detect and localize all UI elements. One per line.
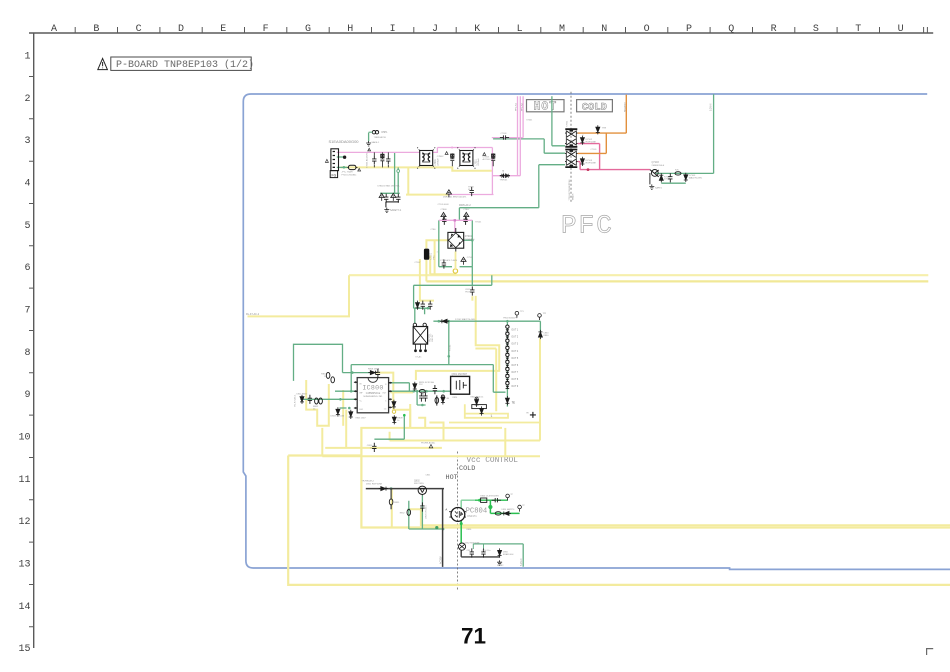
wire green Q802 rect [409, 495, 443, 529]
line filter L7021 [457, 147, 476, 168]
svg-text:5: 5 [24, 221, 30, 232]
svg-text:RGP10NE: RGP10NE [586, 141, 597, 143]
wire pink third vertical [492, 96, 523, 137]
svg-text:2200uH: 2200uH [438, 158, 440, 166]
bridge rectifier D7001 [448, 232, 464, 248]
node green pin2 dot [350, 390, 353, 393]
svg-text:TNR9G821K: TNR9G821K [374, 137, 387, 139]
ground SAFE2 [497, 560, 502, 565]
wire yellow bus lower left riser [426, 240, 448, 281]
svg-text:L7001: L7001 [434, 158, 437, 165]
svg-text:C4558RVD-E: C4558RVD-E [366, 392, 381, 395]
svg-text:OUT 2: OUT 2 [511, 337, 518, 339]
wire green bridge right leg [464, 220, 473, 266]
wire yellow bottom long bus [288, 456, 950, 585]
svg-text:PFC: PFC [561, 211, 614, 241]
capacitor C7003 [386, 155, 390, 164]
warning triangle fuse [358, 168, 361, 171]
node yellow circle pin8 [392, 410, 395, 413]
svg-text:1:4: 1:4 [384, 409, 387, 411]
wire blue board outline [243, 94, 950, 569]
svg-text:PFC: PFC [433, 255, 435, 260]
svg-text:C7001 AC250V: C7001 AC250V [366, 152, 369, 168]
node green x449 dot [448, 355, 451, 358]
svg-text:Q: Q [728, 24, 734, 35]
resistor R7104 [668, 173, 672, 182]
capacitor C7103 [463, 216, 467, 225]
wire brightgreen PC804 bottom [460, 521, 462, 544]
wire green T2 top pin [493, 139, 565, 153]
wire yellow IC800 left loop [306, 380, 329, 426]
svg-text:HOT: HOT [446, 474, 458, 482]
capacitor C806 [392, 400, 396, 409]
svg-text:13: 13 [18, 559, 30, 570]
transformer T7001 upper [565, 129, 577, 147]
wire green IC right main [391, 390, 451, 392]
component box D841 [472, 405, 487, 409]
capacitor C808 [376, 369, 380, 378]
wire green bridge bottom row [439, 266, 473, 268]
node green mid bus dots [438, 320, 441, 323]
wire yellow Q802 drop [391, 489, 393, 528]
diode D7B05 [391, 193, 396, 201]
wire yellow IC800 lower left [322, 428, 360, 456]
svg-text:OUT 4: OUT 4 [511, 351, 518, 353]
connector P1 AC inlet [331, 149, 339, 171]
wire green bridge left leg [438, 220, 440, 266]
wire yellow IC800 long mid [361, 427, 503, 429]
resistor R802 [315, 398, 319, 404]
wire yellow AC line [341, 167, 492, 170]
node pink square [451, 147, 453, 149]
svg-text:6: 6 [24, 263, 30, 274]
hot-cold dashed boundary upper [570, 92, 572, 202]
wire yellow C7106 stub [471, 296, 473, 301]
capacitor C810 [413, 382, 417, 391]
svg-text:SAFE2: SAFE2 [497, 564, 504, 567]
svg-text:2200uH: 2200uH [478, 158, 480, 166]
resistor R854 fusible [495, 512, 501, 515]
svg-text:R7101: R7101 [475, 222, 482, 224]
wire green mid bus [433, 320, 540, 322]
svg-text:D: D [178, 24, 184, 35]
wire dark safety gnd link [386, 202, 399, 208]
svg-text:PK-RELAY-AC: PK-RELAY-AC [421, 441, 436, 444]
svg-text:Q7103: Q7103 [652, 161, 660, 164]
svg-text:D7B04 D7B05 1SS270A: D7B04 D7B05 1SS270A [378, 184, 400, 187]
svg-text:COLD: COLD [459, 465, 475, 473]
node green relay net dot [427, 307, 430, 310]
wire pink T1 rect out [578, 144, 600, 170]
svg-text:K7-AC: K7-AC [416, 356, 422, 359]
capacitor C7B04 [384, 194, 388, 203]
wire yellow D840 loop [465, 404, 508, 418]
node brightgreen big dot [488, 505, 492, 509]
varistor C7105 [461, 257, 466, 265]
node yellow circle under bridge [453, 269, 457, 273]
ground SAFE1 Q7103 [649, 184, 654, 189]
svg-text:MA2270-GRL: MA2270-GRL [689, 176, 703, 179]
wire green T2 bottom pin [539, 164, 565, 166]
svg-text:C7107: C7107 [415, 262, 422, 264]
svg-text:TRANS: TRANS [571, 193, 574, 200]
node brightgreen bottom dot [460, 522, 463, 525]
diode ladder D831-D839 [506, 325, 510, 332]
wire green safety vertical2 [397, 167, 399, 193]
svg-text:B: B [93, 24, 99, 35]
svg-text:D7J02 MA2270-GRL: D7J02 MA2270-GRL [455, 318, 476, 321]
svg-text:R005-AF-2: R005-AF-2 [459, 204, 471, 207]
wire green x449 drop [448, 321, 450, 364]
node pink square bridge [454, 219, 456, 221]
wire green ladder bottom [506, 389, 508, 406]
warning triangle caps [368, 148, 371, 151]
wire yellow IC800 left vertical [342, 390, 344, 426]
svg-text:10: 10 [18, 432, 30, 443]
diode D803 [336, 407, 340, 416]
svg-text:AC20V: AC20V [440, 556, 443, 564]
svg-text:9: 9 [24, 390, 30, 401]
svg-text:KRC243S: KRC243S [414, 483, 424, 485]
wire green Q851 link [473, 544, 483, 549]
node green fuse junction [343, 166, 346, 169]
border ruler frame with grid letters A-U and row numbers 1-15 [29, 32, 933, 34]
svg-text:MJM4558RVD-TE1: MJM4558RVD-TE1 [364, 396, 384, 398]
wire brightgreen PC804 top net [461, 500, 475, 508]
wire pink PFC pair [518, 96, 521, 176]
wire green safety vertical1 [394, 152, 396, 193]
svg-text:M: M [559, 24, 565, 35]
hot-cold dashed boundary lower [457, 452, 459, 591]
node green circle safety [397, 170, 400, 173]
svg-text:G: G [305, 24, 311, 35]
wire yellow x443 jog [429, 423, 443, 441]
capacitor C7104 [442, 259, 446, 268]
wire pink T2 rect out [578, 162, 581, 170]
wire yellow relay loop [416, 296, 499, 380]
wire yellow x496 drop [475, 349, 496, 412]
svg-text:R840 D840 1k: R840 D840 1k [471, 397, 484, 399]
diode D7105 [684, 173, 688, 182]
svg-text:SAFE-1: SAFE-1 [372, 141, 380, 144]
wire pink bridge top [439, 220, 473, 232]
capacitor C7002 X2 [380, 154, 384, 167]
thermistor TH8001 [596, 125, 600, 134]
wire yellow x425 jog [418, 418, 425, 428]
wire green pin8 top link [343, 372, 371, 374]
svg-text:R: R [771, 24, 777, 35]
wire pink filter top loop [433, 148, 493, 153]
svg-text:COLD: COLD [582, 103, 607, 114]
capacitor C815 [470, 286, 474, 295]
svg-text:D803 1SS133: D803 1SS133 [331, 416, 345, 418]
svg-text:C7105 400V: C7105 400V [438, 204, 450, 206]
svg-text:8: 8 [385, 384, 386, 386]
capacitor C7108 left of transformer [500, 135, 509, 139]
wire green transformer link [493, 138, 500, 140]
svg-text:71: 71 [461, 624, 486, 649]
svg-text:OUT 1: OUT 1 [511, 330, 518, 332]
plus mark 9V [530, 412, 536, 418]
wire yellow bridge second riser [434, 240, 436, 274]
svg-text:1: 1 [24, 52, 30, 63]
capacitor C852 [420, 502, 424, 511]
diode D808 [368, 371, 377, 375]
svg-text:OUT 9: OUT 9 [511, 386, 518, 388]
svg-text:1: 1 [583, 134, 584, 136]
wire brightgreen mid net [490, 500, 519, 513]
svg-text:K: K [474, 24, 480, 35]
wire yellow Vcc bus parallel [409, 509, 950, 525]
wire yellow node riser [430, 256, 455, 275]
resistor chain R822 [436, 395, 438, 405]
wire yellow x505 drop [504, 428, 506, 456]
svg-text:R806 C807: R806 C807 [356, 417, 367, 419]
svg-text:K7001: K7001 [527, 119, 534, 121]
label COLD box [577, 100, 613, 112]
resistor R851 [389, 499, 393, 505]
wire yellow y456 long [361, 455, 541, 457]
svg-text:I: I [390, 24, 396, 35]
svg-text:C7B0: C7B0 [431, 229, 437, 231]
node brightgreen dots top [478, 499, 481, 502]
svg-text:Q802: Q802 [414, 480, 420, 482]
wire green x417 drop [417, 391, 426, 405]
svg-text:U: U [898, 24, 904, 35]
wire orange T2 link [578, 133, 607, 153]
svg-text:F: F [263, 24, 269, 35]
ground DSP1 [366, 141, 371, 146]
wire pink right vertical [491, 148, 493, 195]
wire green T1 bottom pin [552, 96, 565, 146]
wire yellow y440 long [390, 432, 540, 441]
diode D851 [379, 487, 388, 491]
svg-text:OUT 3: OUT 3 [511, 344, 518, 346]
inductor L7101 [424, 249, 429, 260]
svg-text:C7B02: C7B02 [437, 156, 444, 158]
wire yellow x410 vertical [409, 404, 411, 428]
capacitor C7B03 X2 [491, 153, 495, 166]
wire green pin3 net [300, 398, 355, 400]
svg-text:R830: R830 [543, 335, 549, 337]
wire green long y364 [351, 365, 505, 393]
wire yellow IC800 mid loop [325, 410, 442, 448]
capacitor C7110 left of transformer [500, 174, 509, 178]
wire green x404 drop [374, 415, 404, 439]
svg-text:R7J01: R7J01 [449, 344, 451, 351]
svg-text:FILM: FILM [465, 291, 470, 293]
wire green pin8 right [391, 383, 410, 391]
warning triangle small AC [325, 159, 328, 162]
resistor R811 [331, 377, 335, 383]
diode D801 [300, 395, 304, 404]
resistor R852 [407, 509, 411, 515]
svg-text:TR-RELAY-2: TR-RELAY-2 [362, 480, 375, 483]
svg-text:S1EA0DA00G00: S1EA0DA00G00 [329, 139, 360, 144]
wire orange relay5V [578, 95, 627, 134]
wire green DSP1 drop [368, 133, 370, 141]
wire yellow pin7 stub [391, 392, 413, 394]
svg-text:C7B06: C7B06 [440, 209, 447, 211]
svg-text:L: L [517, 24, 523, 35]
wire green C815 drop [471, 267, 473, 286]
svg-text:D7001: D7001 [465, 235, 473, 238]
svg-text:RGP10NE: RGP10NE [586, 163, 597, 165]
svg-text:C7B07: C7B07 [463, 209, 470, 211]
svg-text:D854 MA2270: D854 MA2270 [502, 508, 516, 511]
node green IC right dots [412, 390, 415, 393]
diode D7B04 [379, 193, 384, 201]
svg-text:DEC5V: DEC5V [432, 334, 434, 342]
capacitor C855 [470, 548, 474, 557]
svg-text:12: 12 [18, 517, 30, 528]
wire yellow bridge bottom pin [455, 252, 457, 270]
resistor R820 fusible [419, 390, 425, 393]
svg-text:D5P1: D5P1 [382, 131, 389, 134]
wire green 5V output [473, 544, 523, 567]
svg-text:-F%- T5AH: -F%- T5AH [342, 171, 353, 174]
wire pink thermistor line [492, 175, 520, 177]
svg-text:ERA82-004: ERA82-004 [503, 553, 514, 556]
wire dark hot line [366, 488, 444, 490]
svg-text:ZNR7001 ERZV14D471: ZNR7001 ERZV14D471 [443, 197, 467, 199]
capacitor C7102 [442, 216, 446, 225]
svg-text:N: N [601, 24, 607, 35]
svg-text:HOT: HOT [533, 101, 557, 114]
wire yellow y422 link [449, 422, 540, 424]
svg-text:PFC-N1: PFC-N1 [516, 102, 518, 111]
varistor ZNR7001 [446, 190, 451, 198]
wire dark bottom hot circuit [461, 551, 500, 557]
capacitor C821 pair [419, 392, 423, 401]
wire green relay net [414, 308, 431, 323]
svg-text:T: T [855, 24, 861, 35]
transistor Q7103 [650, 170, 659, 177]
wire yellow ZNR drop [406, 167, 448, 194]
wire green PFC output [656, 94, 714, 173]
svg-text:Q801 2SK3567: Q801 2SK3567 [452, 374, 468, 376]
wire green IC big rect [294, 344, 343, 381]
svg-text:E: E [220, 24, 226, 35]
svg-text:C7105: C7105 [467, 257, 474, 259]
svg-text:C: C [136, 24, 142, 35]
diode D7J01 [416, 301, 420, 310]
optocoupler PC804 [451, 508, 465, 522]
diode D804 [349, 410, 353, 419]
wire green pin4 stub [340, 407, 347, 409]
svg-text:OUT 5: OUT 5 [511, 358, 518, 360]
line filter L7001 [417, 147, 436, 168]
resistor R801 [308, 395, 312, 404]
svg-text:RL-K7-AC-2: RL-K7-AC-2 [246, 313, 260, 316]
thermistor TH7B01 [470, 187, 474, 196]
wire green Q7103 bottom tie [661, 182, 686, 184]
ground SAFETY-1 [384, 208, 389, 213]
zener D830 [538, 330, 542, 339]
svg-text:1u: 1u [370, 448, 372, 450]
svg-text:AC250V: AC250V [483, 158, 492, 161]
svg-text:R851: R851 [394, 502, 400, 504]
wire pink ZNR segment [448, 194, 493, 196]
wire green connector stub1 [337, 156, 343, 158]
wire green safety row [380, 192, 400, 194]
svg-text:RELAY5V: RELAY5V [623, 102, 626, 112]
wire dark R oval branch [390, 489, 392, 510]
svg-text:15: 15 [18, 644, 30, 655]
wire yellow bus lower [426, 280, 928, 282]
node pink dot [587, 168, 590, 171]
capacitor C853 [492, 498, 501, 502]
svg-text:J: J [432, 24, 438, 35]
svg-text:H: H [347, 24, 353, 35]
svg-text:SAFE1: SAFE1 [655, 187, 663, 190]
svg-text:D852 RGP10NE: D852 RGP10NE [465, 542, 480, 544]
test point TP7102 [538, 314, 542, 320]
zener D7104 [659, 173, 663, 182]
varistor C7B06 [441, 212, 446, 220]
capacitor C7001 [372, 155, 376, 164]
diode D854 [502, 511, 511, 515]
svg-text:C856 10u: C856 10u [482, 550, 491, 552]
svg-text:2SB857H4-E: 2SB857H4-E [652, 165, 665, 167]
zener D842 [480, 406, 484, 415]
thermistor TH7001 [500, 175, 510, 177]
wire dark Q802 emitter [421, 494, 423, 495]
svg-text:S: S [813, 24, 819, 35]
diode D7103 [580, 157, 584, 166]
svg-text:C7108: C7108 [501, 133, 508, 135]
wire pink PFC line to Q7103 [580, 169, 650, 171]
wire yellow choke bypass [420, 259, 434, 301]
transistor Q851 [458, 543, 465, 550]
wire green zener top [539, 321, 541, 331]
test point TP854 [518, 505, 522, 511]
relay RL7001 [413, 327, 427, 345]
capacitor C7J01 [428, 301, 432, 310]
svg-text:2: 2 [24, 94, 30, 105]
resistor R821 [433, 385, 437, 394]
svg-text:R853 5V-STBY-ERR: R853 5V-STBY-ERR [480, 496, 499, 498]
diode D840 [475, 398, 479, 407]
svg-text:P801 B16B-PH: P801 B16B-PH [503, 318, 518, 320]
corner mark bottom-right [927, 649, 934, 655]
svg-text:1k: 1k [397, 420, 399, 422]
svg-text:IC800: IC800 [362, 384, 383, 391]
resistor R810 [326, 372, 330, 378]
node green x404 dot [403, 414, 406, 417]
capacitor C856 [481, 548, 485, 557]
warning triangle [98, 58, 108, 69]
capacitor C809 [392, 415, 396, 424]
svg-text:L7021: L7021 [474, 158, 477, 165]
diode D7102 [580, 136, 584, 145]
svg-text:C852 16V100u: C852 16V100u [425, 506, 427, 519]
surge arrester D5P1 [372, 131, 375, 134]
svg-text:5.2V-N: 5.2V-N [520, 558, 523, 566]
capacitor C7B02 X2 [450, 153, 454, 166]
test point TP853 [506, 494, 510, 500]
svg-text:8: 8 [24, 348, 30, 359]
svg-text:D3SBA60: D3SBA60 [465, 238, 475, 241]
fuse F7001 [349, 165, 356, 169]
svg-text:5.2V-N: 5.2V-N [710, 103, 713, 111]
svg-text:A: A [445, 507, 447, 511]
wire yellow x540 tall [539, 338, 541, 440]
svg-text:OUT 6: OUT 6 [511, 365, 518, 367]
svg-text:C7109: C7109 [591, 149, 598, 151]
node green bridge junction [471, 239, 474, 242]
svg-text:ON3171: ON3171 [467, 514, 477, 518]
